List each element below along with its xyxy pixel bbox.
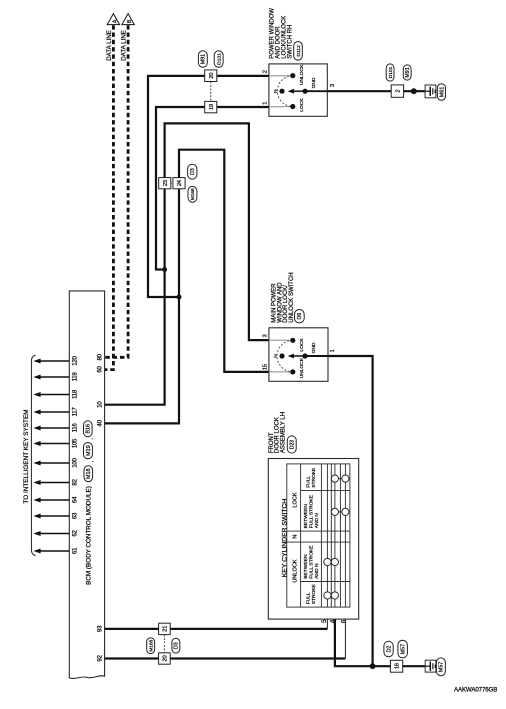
svg-text:19: 19 (209, 104, 215, 110)
table column dividers (301, 464, 341, 607)
svg-text:20: 20 (163, 656, 169, 662)
svg-text:LOCK: LOCK (293, 492, 299, 508)
svg-text:M168: M168 (190, 188, 195, 200)
svg-text:AAKWA0776GB: AAKWA0776GB (454, 687, 497, 694)
connector oval D112 (294, 42, 303, 61)
svg-text:STROKE: STROKE (311, 583, 317, 604)
connector label oval D2 (384, 641, 393, 657)
svg-text:UNLOCK: UNLOCK (299, 64, 305, 85)
svg-text:64: 64 (72, 496, 79, 503)
svg-text:40: 40 (97, 419, 104, 426)
svg-text:D101: D101 (388, 66, 394, 78)
svg-text:B16: B16 (86, 424, 92, 434)
connector box 19 (M91/D101) (205, 101, 217, 112)
front door lock assembly LH box D23 (268, 459, 358, 620)
svg-text:M168: M168 (148, 639, 153, 651)
svg-text:1: 1 (262, 102, 268, 105)
junction node (RH ground net) (411, 88, 417, 94)
svg-text:D2: D2 (386, 646, 392, 653)
junction node (ground net bottom) (370, 663, 376, 669)
arrow BCM pin 120 to intelligent key system (40, 360, 69, 362)
svg-text:16: 16 (395, 663, 401, 669)
svg-text:10: 10 (97, 401, 104, 408)
connector label oval M57 (436, 658, 445, 676)
svg-text:FULL: FULL (305, 476, 311, 488)
svg-text:M19: M19 (86, 445, 92, 456)
svg-text:M57: M57 (400, 644, 406, 655)
wire key cylinder rail 2 stub (pin 4) (334, 607, 336, 618)
arrow BCM pin 116 to intelligent key system (40, 427, 69, 429)
svg-text:LOCK: LOCK (299, 338, 305, 352)
wire branch to power window switch RH pin 2 (via connector 20) (148, 76, 269, 297)
RH switch pin 1 stub to LOCK contact (269, 106, 292, 108)
table row dividers (287, 491, 350, 582)
svg-text:BETWEEN: BETWEEN (303, 554, 309, 579)
connector label oval M91 (403, 65, 411, 80)
svg-text:GND: GND (311, 77, 317, 88)
wire data line B (dashed, BCM pin 80 to arrow B) (105, 25, 128, 357)
RH switch GND line to pin 3 (305, 90, 327, 92)
main switch contact N (279, 353, 284, 358)
arrow BCM pin 119 to intelligent key system (40, 376, 69, 378)
main switch contact GND (302, 353, 307, 358)
svg-text:,: , (88, 438, 94, 439)
svg-text:3: 3 (330, 84, 336, 87)
wire junction to ground M57 (via connector 16) (373, 665, 430, 667)
wire BCM pin 10 to main switch pin 3 (via connector 23) (105, 123, 269, 404)
connector box 2 (D101/M91) (391, 85, 403, 97)
power window and door lock/unlock switch RH box D112 (269, 64, 327, 116)
connector oval D6 (295, 310, 305, 323)
svg-text:M91: M91 (201, 54, 207, 65)
main switch dashed throw arc (277, 340, 293, 372)
wire data line A (dashed, BCM pin 60 to arrow A) (105, 25, 113, 369)
wire branch to power window switch RH pin 1 (via connector 19) (156, 107, 269, 270)
RH switch wiper arrow (GND toward N) (291, 90, 306, 92)
bracket (31, 355, 35, 555)
svg-text:POWER WINDOW: POWER WINDOW (269, 8, 275, 59)
svg-text:118: 118 (72, 389, 79, 399)
connector label oval M168 (147, 638, 155, 654)
svg-text:116: 116 (72, 423, 79, 433)
connector box 16 (D2/M57) (390, 660, 402, 672)
key cylinder rail 2 (pin 4) (334, 464, 336, 607)
svg-text:82: 82 (72, 479, 79, 486)
wire key cylinder rail 1 stub (pin 5) (326, 607, 328, 629)
svg-text:LOCK/UNLOCK: LOCK/UNLOCK (282, 16, 288, 59)
connector box 20 (M91/D101) (205, 70, 217, 82)
main switch pin 3 stub to LOCK contact (269, 339, 292, 341)
svg-text:3: 3 (262, 334, 268, 337)
wire RH switch pin 3 to ground M61 (via connector 2) (327, 90, 430, 92)
svg-text:15: 15 (262, 364, 268, 370)
contact pair lock between full stroke and N (335, 511, 346, 513)
svg-text:23: 23 (163, 180, 169, 186)
connector box 24 (M168/D3) (173, 178, 185, 189)
RH switch contact UNLOCK (290, 73, 295, 78)
RH switch dashed throw arc (277, 76, 292, 107)
svg-text:SWITCH RH: SWITCH RH (288, 25, 294, 59)
arrow BCM pin 118 to intelligent key system (40, 394, 69, 396)
off-page arrow B (122, 14, 134, 25)
svg-text:D3: D3 (174, 642, 180, 649)
svg-text:GND: GND (311, 342, 317, 353)
connector label oval D101 (214, 51, 223, 68)
arrow BCM pin 61 to intelligent key system (40, 550, 69, 552)
svg-text:BETWEEN: BETWEEN (303, 504, 309, 529)
arrow BCM pin 82 to intelligent key system (40, 482, 69, 484)
RH switch contact LOCK (290, 104, 295, 109)
connector label oval M57 (398, 640, 408, 658)
connector box 23 (M168/D3) (159, 178, 171, 189)
svg-text:N: N (273, 354, 279, 358)
svg-text:D101: D101 (216, 53, 222, 65)
arrow BCM pin 62 to intelligent key system (40, 533, 69, 535)
ground symbol M61 (425, 85, 436, 98)
svg-text:2: 2 (396, 90, 402, 93)
dotted link connector 20-19 (210, 82, 212, 102)
arrow BCM pin 105 to intelligent key system (40, 443, 69, 445)
connector label oval D101 (386, 64, 394, 81)
svg-text:20: 20 (209, 73, 215, 79)
connector oval B16 (84, 421, 93, 437)
svg-text:92: 92 (97, 655, 104, 662)
connector oval D23 (287, 436, 296, 453)
svg-text:M61: M61 (439, 87, 445, 98)
junction node (unlock net) (162, 267, 167, 272)
svg-text:N: N (273, 89, 279, 93)
RH switch contact GND (302, 89, 307, 94)
svg-text:DATA LINE: DATA LINE (121, 30, 128, 61)
svg-text:N: N (293, 535, 299, 539)
wire key cylinder rail 3 stub (pin 6) (344, 607, 346, 658)
svg-text:TO INTELLIGENT KEY SYSTEM: TO INTELLIGENT KEY SYSTEM (23, 409, 30, 503)
connector label oval M168 (188, 186, 197, 202)
wire BCM pin 92 to key cylinder pin 6 (via connector 20) (105, 657, 346, 659)
svg-text:M57: M57 (439, 662, 445, 673)
contact pair unlock full stroke (327, 595, 335, 597)
RH switch pin 2 stub to UNLOCK contact (269, 75, 292, 77)
svg-text:B: B (127, 19, 133, 23)
connector box 21 (M168/D3) (159, 623, 171, 634)
svg-text:D23: D23 (290, 440, 296, 449)
svg-text:1: 1 (330, 349, 336, 352)
svg-text:21: 21 (163, 626, 169, 632)
connector box 20 (M168/D3) (159, 653, 171, 664)
svg-text:AND N: AND N (314, 513, 320, 529)
svg-text:D112: D112 (296, 45, 302, 57)
svg-text:AND DOOR: AND DOOR (275, 26, 281, 59)
main switch contact UNLOCK (290, 369, 295, 374)
connector label oval D3 (188, 164, 197, 179)
junction node (lock net) (177, 295, 182, 300)
main switch wiper arrow (GND toward N) (291, 355, 306, 357)
svg-text:80: 80 (97, 353, 104, 360)
ground symbol M57 (425, 660, 436, 672)
svg-text:KEY CYLINDER SWITCH: KEY CYLINDER SWITCH (281, 499, 288, 578)
svg-text:BCM (BODY CONTROL MODULE): BCM (BODY CONTROL MODULE) (85, 486, 92, 585)
svg-text:UNLOCK: UNLOCK (293, 559, 299, 583)
svg-text:2: 2 (262, 70, 268, 73)
connector oval M18 (84, 466, 93, 482)
off-page arrow A (107, 14, 119, 25)
main switch pin 15 stub to UNLOCK contact (269, 371, 292, 373)
connector oval M19 (84, 443, 93, 459)
arrow BCM pin 63 to intelligent key system (40, 515, 69, 517)
wire main switch pin 1 ground (328, 356, 373, 666)
connector label oval D3 (172, 638, 180, 653)
svg-text:120: 120 (72, 355, 79, 365)
key cylinder switch table frame (287, 464, 350, 607)
svg-text:M91: M91 (405, 67, 411, 78)
wire BCM pin 93 to key cylinder pin 5 (via connector 21) (105, 628, 328, 630)
svg-text:119: 119 (72, 372, 79, 382)
svg-text:D6: D6 (297, 313, 303, 320)
svg-text:105: 105 (72, 438, 79, 448)
svg-text:ASSEMBLY LH: ASSEMBLY LH (281, 412, 287, 453)
svg-text:LOCK: LOCK (299, 98, 305, 112)
arrow BCM pin 117 to intelligent key system (40, 411, 69, 413)
main power window and door lock/unlock switch box D6 (269, 328, 328, 382)
arrow BCM pin 64 to intelligent key system (40, 499, 69, 501)
svg-text:,: , (89, 461, 95, 462)
svg-text:FULL STROKE: FULL STROKE (309, 545, 315, 579)
svg-text:A: A (112, 19, 118, 23)
dotted link connector 23-24 (171, 182, 173, 184)
svg-text:M18: M18 (86, 468, 92, 479)
contact pair unlock between full stroke and N (327, 561, 335, 563)
wire BCM pin 40 to main switch pin 15 (via connector 24) (105, 150, 269, 424)
contact pair lock full stroke (335, 478, 346, 480)
svg-text:60: 60 (97, 366, 104, 373)
wire key cylinder pin 4 to ground junction (335, 618, 373, 666)
svg-text:100: 100 (72, 457, 79, 467)
connector label oval M61 (437, 84, 445, 101)
svg-text:63: 63 (72, 512, 79, 519)
svg-text:UNLOCK: UNLOCK (299, 357, 305, 378)
main switch GND line to pin 1 (305, 355, 328, 357)
RH switch contact N (279, 89, 284, 94)
svg-text:62: 62 (72, 530, 79, 537)
svg-text:AND N: AND N (314, 563, 320, 579)
svg-text:DATA LINE: DATA LINE (106, 30, 113, 61)
connector label oval M91 (198, 51, 207, 68)
key cylinder rail 3 (pin 6) (344, 464, 346, 607)
arrow BCM pin 100 to intelligent key system (40, 462, 69, 464)
dotted link connector 21-20 (163, 635, 165, 653)
svg-text:FULL: FULL (305, 592, 311, 604)
svg-text:93: 93 (97, 625, 104, 632)
svg-text:117: 117 (72, 407, 79, 417)
svg-text:STROKE: STROKE (311, 467, 317, 488)
key cylinder rail 1 (pin 5) (326, 464, 328, 607)
svg-text:FULL STROKE: FULL STROKE (309, 494, 315, 528)
svg-text:61: 61 (72, 547, 79, 554)
BCM body control module box (69, 291, 104, 679)
main switch contact LOCK (290, 338, 295, 343)
svg-text:D3: D3 (190, 168, 196, 175)
